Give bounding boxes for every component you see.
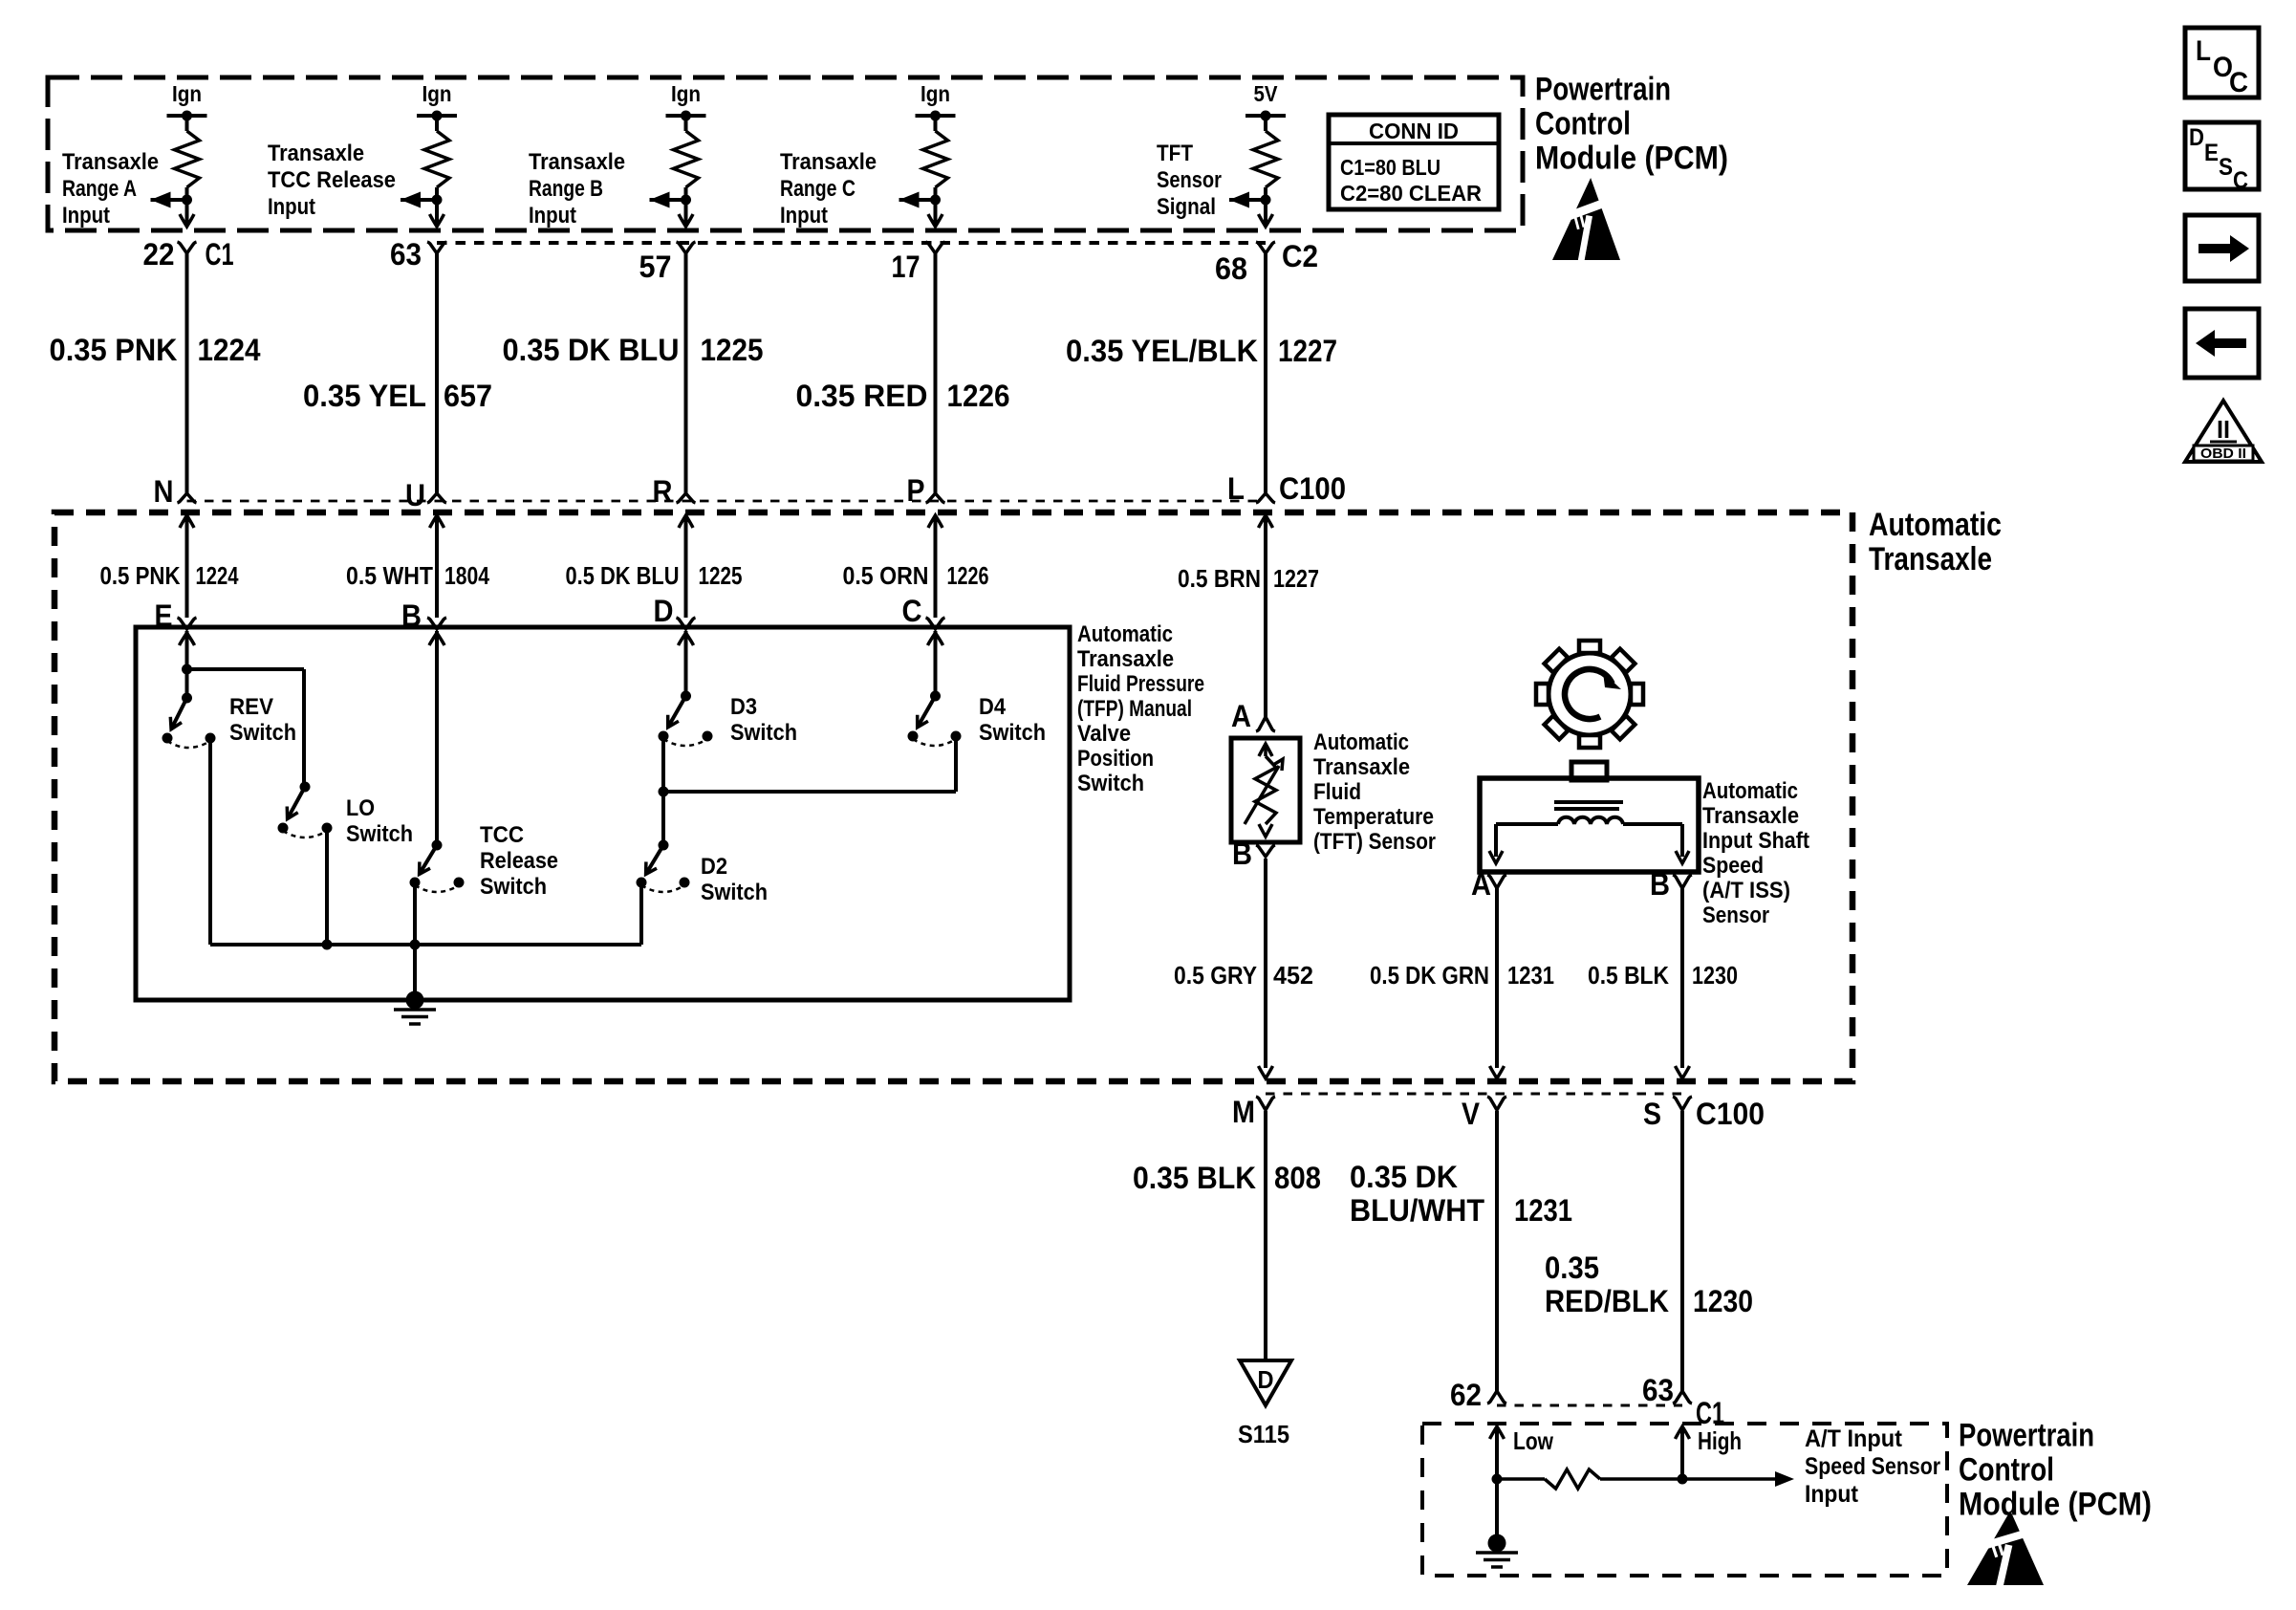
svg-text:Automatic: Automatic (1313, 729, 1409, 755)
svg-text:L: L (2196, 35, 2211, 67)
svg-text:0.35 YEL/BLK: 0.35 YEL/BLK (1066, 334, 1258, 368)
svg-text:Transaxle: Transaxle (1702, 803, 1799, 829)
svg-text:Range C: Range C (780, 176, 856, 202)
svg-text:S115: S115 (1238, 1420, 1289, 1448)
svg-text:D2: D2 (701, 854, 727, 880)
svg-text:LO: LO (346, 795, 375, 821)
svg-text:C100: C100 (1279, 471, 1346, 506)
svg-text:1231: 1231 (1514, 1193, 1572, 1228)
svg-text:Ign: Ign (422, 81, 452, 106)
svg-text:II: II (2217, 415, 2230, 444)
svg-text:Transaxle: Transaxle (62, 149, 159, 175)
svg-text:Input: Input (268, 194, 315, 220)
svg-text:1230: 1230 (1693, 1284, 1753, 1318)
svg-text:Automatic: Automatic (1869, 507, 2002, 543)
svg-text:Valve: Valve (1077, 721, 1131, 747)
svg-text:D3: D3 (730, 694, 757, 720)
svg-text:Position: Position (1077, 746, 1154, 772)
svg-text:1226: 1226 (947, 561, 989, 590)
svg-text:0.35 DK: 0.35 DK (1350, 1160, 1458, 1194)
svg-text:(A/T ISS): (A/T ISS) (1702, 878, 1790, 903)
svg-text:1804: 1804 (444, 561, 489, 590)
svg-text:Transaxle: Transaxle (1313, 754, 1410, 780)
svg-text:C: C (902, 594, 922, 628)
svg-text:B: B (1650, 867, 1670, 902)
svg-text:Input: Input (780, 203, 828, 228)
svg-text:CONN ID: CONN ID (1369, 119, 1459, 143)
svg-text:Transaxle: Transaxle (268, 141, 364, 166)
svg-text:(TFT) Sensor: (TFT) Sensor (1313, 829, 1436, 855)
svg-text:657: 657 (444, 379, 492, 413)
svg-text:D4: D4 (979, 694, 1007, 720)
svg-text:S: S (2219, 154, 2233, 181)
svg-text:Range A: Range A (62, 176, 137, 202)
svg-text:Transaxle: Transaxle (1077, 646, 1174, 672)
svg-text:Switch: Switch (229, 720, 296, 746)
svg-text:62: 62 (1450, 1378, 1482, 1412)
svg-text:RED/BLK: RED/BLK (1545, 1284, 1669, 1318)
svg-text:C2=80 CLEAR: C2=80 CLEAR (1340, 181, 1482, 206)
svg-text:Input: Input (529, 203, 576, 228)
svg-text:Speed Sensor: Speed Sensor (1805, 1453, 1940, 1480)
svg-text:0.35 YEL: 0.35 YEL (303, 379, 426, 413)
svg-text:Switch: Switch (480, 874, 547, 900)
svg-text:V: V (1462, 1097, 1481, 1131)
svg-text:0.5 PNK: 0.5 PNK (100, 561, 181, 590)
svg-text:63: 63 (390, 237, 422, 272)
svg-text:Transaxle: Transaxle (529, 149, 625, 175)
svg-text:0.5 GRY: 0.5 GRY (1174, 961, 1257, 990)
svg-text:0.35 PNK: 0.35 PNK (50, 333, 178, 367)
svg-text:Transaxle: Transaxle (1869, 541, 1992, 577)
svg-text:D: D (654, 594, 674, 628)
svg-text:Range B: Range B (529, 176, 603, 202)
svg-text:0.5 WHT: 0.5 WHT (346, 561, 433, 590)
svg-text:0.5 BLK: 0.5 BLK (1588, 961, 1669, 990)
svg-text:0.5 DK GRN: 0.5 DK GRN (1370, 961, 1489, 990)
svg-text:0.5 ORN: 0.5 ORN (843, 561, 929, 590)
svg-text:Automatic: Automatic (1077, 621, 1173, 647)
svg-text:U: U (405, 478, 425, 512)
svg-text:D: D (1258, 1365, 1274, 1394)
svg-text:1225: 1225 (701, 333, 764, 367)
svg-text:Sensor: Sensor (1157, 167, 1222, 193)
svg-text:1226: 1226 (947, 379, 1010, 413)
svg-text:0.5 BRN: 0.5 BRN (1178, 564, 1261, 593)
svg-text:TFT: TFT (1157, 141, 1193, 166)
svg-text:(TFP) Manual: (TFP) Manual (1077, 696, 1192, 722)
svg-text:High: High (1698, 1426, 1742, 1455)
svg-text:Switch: Switch (1077, 771, 1144, 796)
svg-text:Fluid Pressure: Fluid Pressure (1077, 671, 1204, 697)
svg-text:C2: C2 (1282, 239, 1318, 273)
svg-text:0.35 RED: 0.35 RED (796, 379, 928, 413)
svg-text:Input Shaft: Input Shaft (1702, 828, 1809, 854)
svg-text:A: A (1471, 867, 1491, 902)
svg-text:Control: Control (1959, 1451, 2054, 1488)
svg-text:TCC Release: TCC Release (268, 167, 396, 193)
svg-text:Control: Control (1535, 105, 1631, 141)
svg-text:Switch: Switch (701, 880, 768, 905)
svg-text:R: R (653, 474, 673, 509)
svg-text:Powertrain: Powertrain (1535, 71, 1671, 107)
svg-text:A/T Input: A/T Input (1805, 1425, 1903, 1452)
svg-text:Module (PCM): Module (PCM) (1959, 1486, 2152, 1522)
svg-text:0.5 DK BLU: 0.5 DK BLU (566, 561, 680, 590)
svg-text:BLU/WHT: BLU/WHT (1350, 1193, 1484, 1228)
svg-text:Switch: Switch (346, 821, 413, 847)
svg-text:D: D (2189, 124, 2204, 151)
svg-text:Sensor: Sensor (1702, 903, 1769, 928)
svg-text:22: 22 (143, 237, 175, 272)
svg-text:E: E (2204, 140, 2219, 166)
svg-text:C100: C100 (1696, 1097, 1765, 1131)
svg-text:5V: 5V (1254, 81, 1279, 106)
svg-text:Powertrain: Powertrain (1959, 1417, 2094, 1453)
svg-text:1230: 1230 (1692, 961, 1738, 990)
svg-text:C: C (2233, 167, 2248, 194)
svg-text:N: N (154, 474, 174, 509)
svg-text:0.35 BLK: 0.35 BLK (1133, 1161, 1256, 1195)
svg-text:0.35: 0.35 (1545, 1251, 1599, 1285)
svg-text:Switch: Switch (730, 720, 797, 746)
svg-text:63: 63 (1642, 1373, 1674, 1407)
svg-text:Ign: Ign (671, 81, 701, 106)
svg-text:Temperature: Temperature (1313, 804, 1434, 830)
svg-text:OBD II: OBD II (2200, 446, 2246, 462)
svg-text:TCC: TCC (480, 822, 524, 848)
svg-text:Ign: Ign (172, 81, 202, 106)
svg-text:1227: 1227 (1273, 564, 1319, 593)
svg-text:Transaxle: Transaxle (780, 149, 877, 175)
svg-text:Ign: Ign (921, 81, 950, 106)
svg-text:Speed: Speed (1702, 853, 1764, 879)
svg-text:57: 57 (639, 250, 672, 284)
svg-text:A: A (1231, 699, 1251, 733)
svg-text:1224: 1224 (198, 333, 261, 367)
svg-text:Automatic: Automatic (1702, 778, 1798, 804)
svg-text:Signal: Signal (1157, 194, 1216, 220)
svg-text:Input: Input (62, 203, 110, 228)
svg-text:1224: 1224 (196, 561, 239, 590)
svg-text:B: B (1232, 837, 1252, 871)
svg-text:808: 808 (1274, 1161, 1321, 1195)
svg-text:Low: Low (1513, 1426, 1554, 1455)
svg-text:1225: 1225 (699, 561, 743, 590)
svg-text:1227: 1227 (1278, 334, 1337, 368)
svg-text:C: C (2229, 67, 2248, 98)
svg-text:Input: Input (1805, 1481, 1859, 1508)
svg-text:452: 452 (1273, 961, 1313, 990)
svg-text:REV: REV (229, 694, 273, 720)
svg-text:C1=80 BLU: C1=80 BLU (1340, 155, 1440, 180)
svg-text:68: 68 (1215, 251, 1247, 286)
svg-text:Fluid: Fluid (1313, 779, 1361, 805)
svg-text:0.35 DK BLU: 0.35 DK BLU (503, 333, 680, 367)
svg-text:Switch: Switch (979, 720, 1046, 746)
svg-text:P: P (907, 473, 925, 508)
svg-text:17: 17 (892, 250, 921, 284)
svg-text:1231: 1231 (1507, 961, 1554, 990)
svg-text:Module (PCM): Module (PCM) (1535, 140, 1728, 176)
svg-text:Release: Release (480, 848, 558, 874)
svg-text:C1: C1 (206, 237, 234, 272)
svg-text:M: M (1232, 1095, 1255, 1129)
svg-text:S: S (1643, 1097, 1661, 1131)
